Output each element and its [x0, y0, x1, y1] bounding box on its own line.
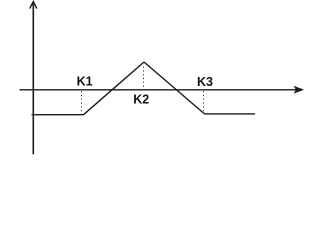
svg-text:K2: K2: [133, 93, 149, 107]
y-axis: [32, 2, 34, 154]
y-axis arrowhead: [30, 2, 37, 9]
waveform falling ramp: [144, 62, 205, 114]
dotted guide line at K2: [143, 67, 145, 90]
x-axis arrowhead: [294, 86, 304, 93]
waveform lower-left segment: [32, 114, 84, 116]
dotted guide line at K1: [81, 91, 83, 114]
svg-text:K3: K3: [197, 75, 213, 89]
waveform rising ramp: [84, 62, 145, 115]
x-axis: [20, 89, 298, 91]
waveform lower-right segment: [205, 113, 256, 115]
dotted guide line at K3: [203, 91, 205, 113]
svg-text:K1: K1: [77, 74, 93, 88]
